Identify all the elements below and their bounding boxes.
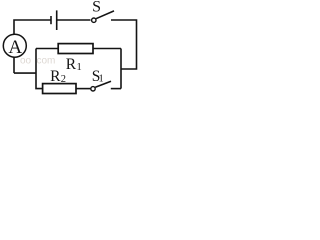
wire left branch vertical with stub to R2 — [36, 49, 43, 89]
switch S1 blade — [95, 81, 111, 87]
wire bottom-left horizontal to branch node — [14, 72, 36, 74]
svg-text:1: 1 — [77, 62, 82, 73]
svg-text:A: A — [8, 37, 22, 58]
wire ammeter bottom down — [13, 57, 15, 73]
wire right branch vertical — [120, 49, 122, 89]
battery long plate (positive) — [56, 10, 58, 30]
svg-text:2: 2 — [61, 74, 66, 85]
svg-text:1: 1 — [99, 74, 104, 85]
svg-text:R: R — [66, 56, 77, 73]
wire switch S to top-right corner, down right side, left to node — [111, 20, 137, 69]
wire top-left corner — [14, 20, 51, 35]
svg-text:com: com — [37, 56, 56, 67]
switch S pivot circle — [92, 18, 96, 22]
wire branch node to R1 — [36, 48, 58, 50]
switch S1 pivot circle — [91, 87, 95, 91]
ammeter A circle — [3, 34, 26, 57]
wire switch S1 to right branch — [111, 88, 121, 90]
wire R1 right — [93, 48, 121, 50]
switch S blade — [96, 11, 114, 19]
wire R2 right to switch S1 — [76, 88, 91, 90]
svg-text:S: S — [92, 0, 101, 16]
wire battery to switch S — [57, 19, 91, 21]
resistor R2 — [43, 84, 76, 94]
resistor R1 — [58, 44, 93, 54]
battery short plate (negative) — [50, 16, 52, 24]
svg-text:R: R — [50, 68, 61, 85]
